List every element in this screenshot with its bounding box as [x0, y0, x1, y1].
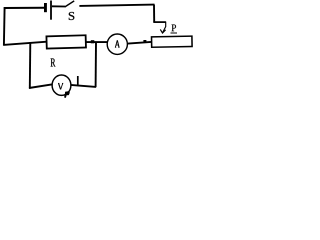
ink blob on wire: [143, 40, 146, 43]
wire voltmeter bottom-left horizontal: [29, 84, 53, 88]
wire ammeter to rheostat: [128, 42, 151, 44]
rheostat wiper arrowhead: [160, 29, 165, 33]
voltmeter circle U=V: [52, 75, 71, 95]
battery positive plate (long thin): [50, 1, 52, 20]
resistor label R: [51, 58, 56, 66]
wire top-right horizontal: [79, 5, 154, 6]
ammeter circle U=A: [107, 34, 127, 54]
rheostat P body: [152, 36, 193, 47]
rheostat wiper arrow shaft: [163, 22, 166, 33]
wire top-left horizontal: [4, 7, 45, 9]
wire voltmeter branch right vertical: [95, 43, 97, 88]
wire voltmeter bottom-right horizontal: [71, 85, 96, 87]
junction dot node: [91, 40, 95, 43]
wire step horizontal: [153, 21, 166, 23]
resistor R body: [46, 35, 86, 48]
voltmeter label V: [58, 83, 63, 89]
wire voltmeter branch left vertical: [29, 42, 32, 89]
wire battery to switch pivot: [52, 5, 65, 7]
stub wire at voltmeter right: [77, 76, 79, 86]
ink tail blob at voltmeter: [64, 91, 70, 98]
ammeter label A: [115, 40, 120, 47]
wire left vertical: [3, 7, 6, 45]
wire right vertical to step: [153, 5, 155, 23]
battery negative plate (short thick): [44, 3, 47, 12]
wire bottom-left horizontal: [3, 42, 47, 45]
label P underline: [171, 32, 178, 34]
switch S blade: [65, 1, 75, 7]
switch label S: [69, 12, 75, 20]
rheostat label P: [171, 25, 175, 32]
wire resistor to ammeter: [86, 41, 107, 43]
